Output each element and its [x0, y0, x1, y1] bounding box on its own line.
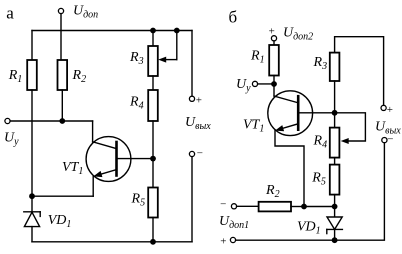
- junction VD1-bottom rail: [332, 237, 338, 243]
- wire Uy b: [258, 83, 274, 85]
- wire minus terminal down: [191, 157, 193, 242]
- junction base: [150, 156, 156, 162]
- terminal Udop: [58, 8, 63, 13]
- junction R2-Uy: [59, 118, 65, 124]
- wire emitter down: [92, 176, 94, 196]
- wire R2 bottom lead: [61, 90, 63, 121]
- svg-text:б: б: [229, 8, 238, 27]
- terminal Uy: [5, 118, 10, 123]
- junction emitter-R2: [301, 204, 307, 210]
- wire R1 top lead: [31, 31, 33, 61]
- wire collector lead: [92, 121, 94, 142]
- wire R4-R5 segment: [152, 121, 154, 188]
- wire right rail: [191, 31, 193, 97]
- wire top rail: [32, 30, 192, 32]
- resistor R4 b: [330, 128, 340, 158]
- resistor R1 b: [269, 45, 279, 76]
- svg-text:−: −: [387, 134, 393, 146]
- wire R4-R5 lead: [334, 158, 336, 165]
- wire emitter to R1: [32, 195, 93, 197]
- terminal Uy b: [252, 81, 257, 86]
- resistor R1: [27, 60, 37, 90]
- transistor VT1 b: [268, 91, 335, 136]
- wire Uy horizontal: [10, 120, 93, 122]
- wire top link b: [335, 37, 384, 106]
- junction R1-emitter-VD1: [29, 193, 35, 199]
- junction wiper top: [174, 28, 180, 34]
- wire R3 to R4: [334, 81, 336, 128]
- svg-text:+: +: [387, 104, 393, 116]
- svg-text:−: −: [197, 148, 203, 160]
- wire bottom rail b: [236, 143, 385, 241]
- wire Udop2 to R1: [273, 41, 275, 45]
- svg-text:+: +: [196, 95, 202, 107]
- junction R5-bottom rail: [150, 239, 156, 245]
- wire wiper b: [335, 113, 366, 141]
- resistor R3: [148, 46, 158, 76]
- wire Udop to R2 top: [60, 14, 62, 60]
- wire R5 bottom lead: [152, 218, 154, 242]
- svg-text:−: −: [220, 199, 226, 211]
- resistor R2 b: [259, 202, 291, 212]
- wire bottom rail: [32, 241, 192, 243]
- terminal plus out b: [381, 105, 386, 110]
- terminal plus Udop1: [230, 237, 235, 242]
- wire emitter junction to R5 junction: [304, 206, 335, 208]
- resistor R5 b: [330, 165, 340, 195]
- terminal minus Udop1: [231, 204, 236, 209]
- wire R3 top lead: [152, 31, 154, 47]
- resistor R5: [148, 188, 158, 218]
- junction R5-VD1: [332, 204, 338, 210]
- junction R3 top: [150, 28, 156, 34]
- wire R3-R4 lead: [152, 76, 154, 90]
- wire emitter path b: [275, 131, 304, 207]
- zener VD1 b: [327, 207, 343, 241]
- wire R5 bottom lead: [334, 195, 336, 207]
- wire R1 bottom / collector: [273, 76, 275, 97]
- resistor R4: [148, 90, 158, 121]
- wire minus Udop1 to R2: [237, 205, 259, 207]
- terminal plus out a: [189, 96, 194, 101]
- wire R2 right lead: [291, 206, 304, 208]
- resistor R2: [58, 60, 68, 90]
- junction R1-Uy-collector: [271, 81, 277, 87]
- zener VD1: [24, 196, 40, 242]
- svg-text:+: +: [220, 236, 226, 248]
- wire wiper vertical: [176, 31, 178, 60]
- wire wiper horizontal with arrow: [165, 59, 177, 61]
- wire R1 bottom lead: [31, 90, 33, 196]
- transistor VT1: [86, 137, 153, 182]
- junction base b: [332, 110, 338, 116]
- terminal Udop2: [271, 36, 276, 41]
- resistor R3 b: [330, 53, 340, 81]
- terminal minus out b: [382, 138, 387, 143]
- terminal minus out a: [189, 151, 194, 156]
- svg-text:а: а: [6, 3, 14, 22]
